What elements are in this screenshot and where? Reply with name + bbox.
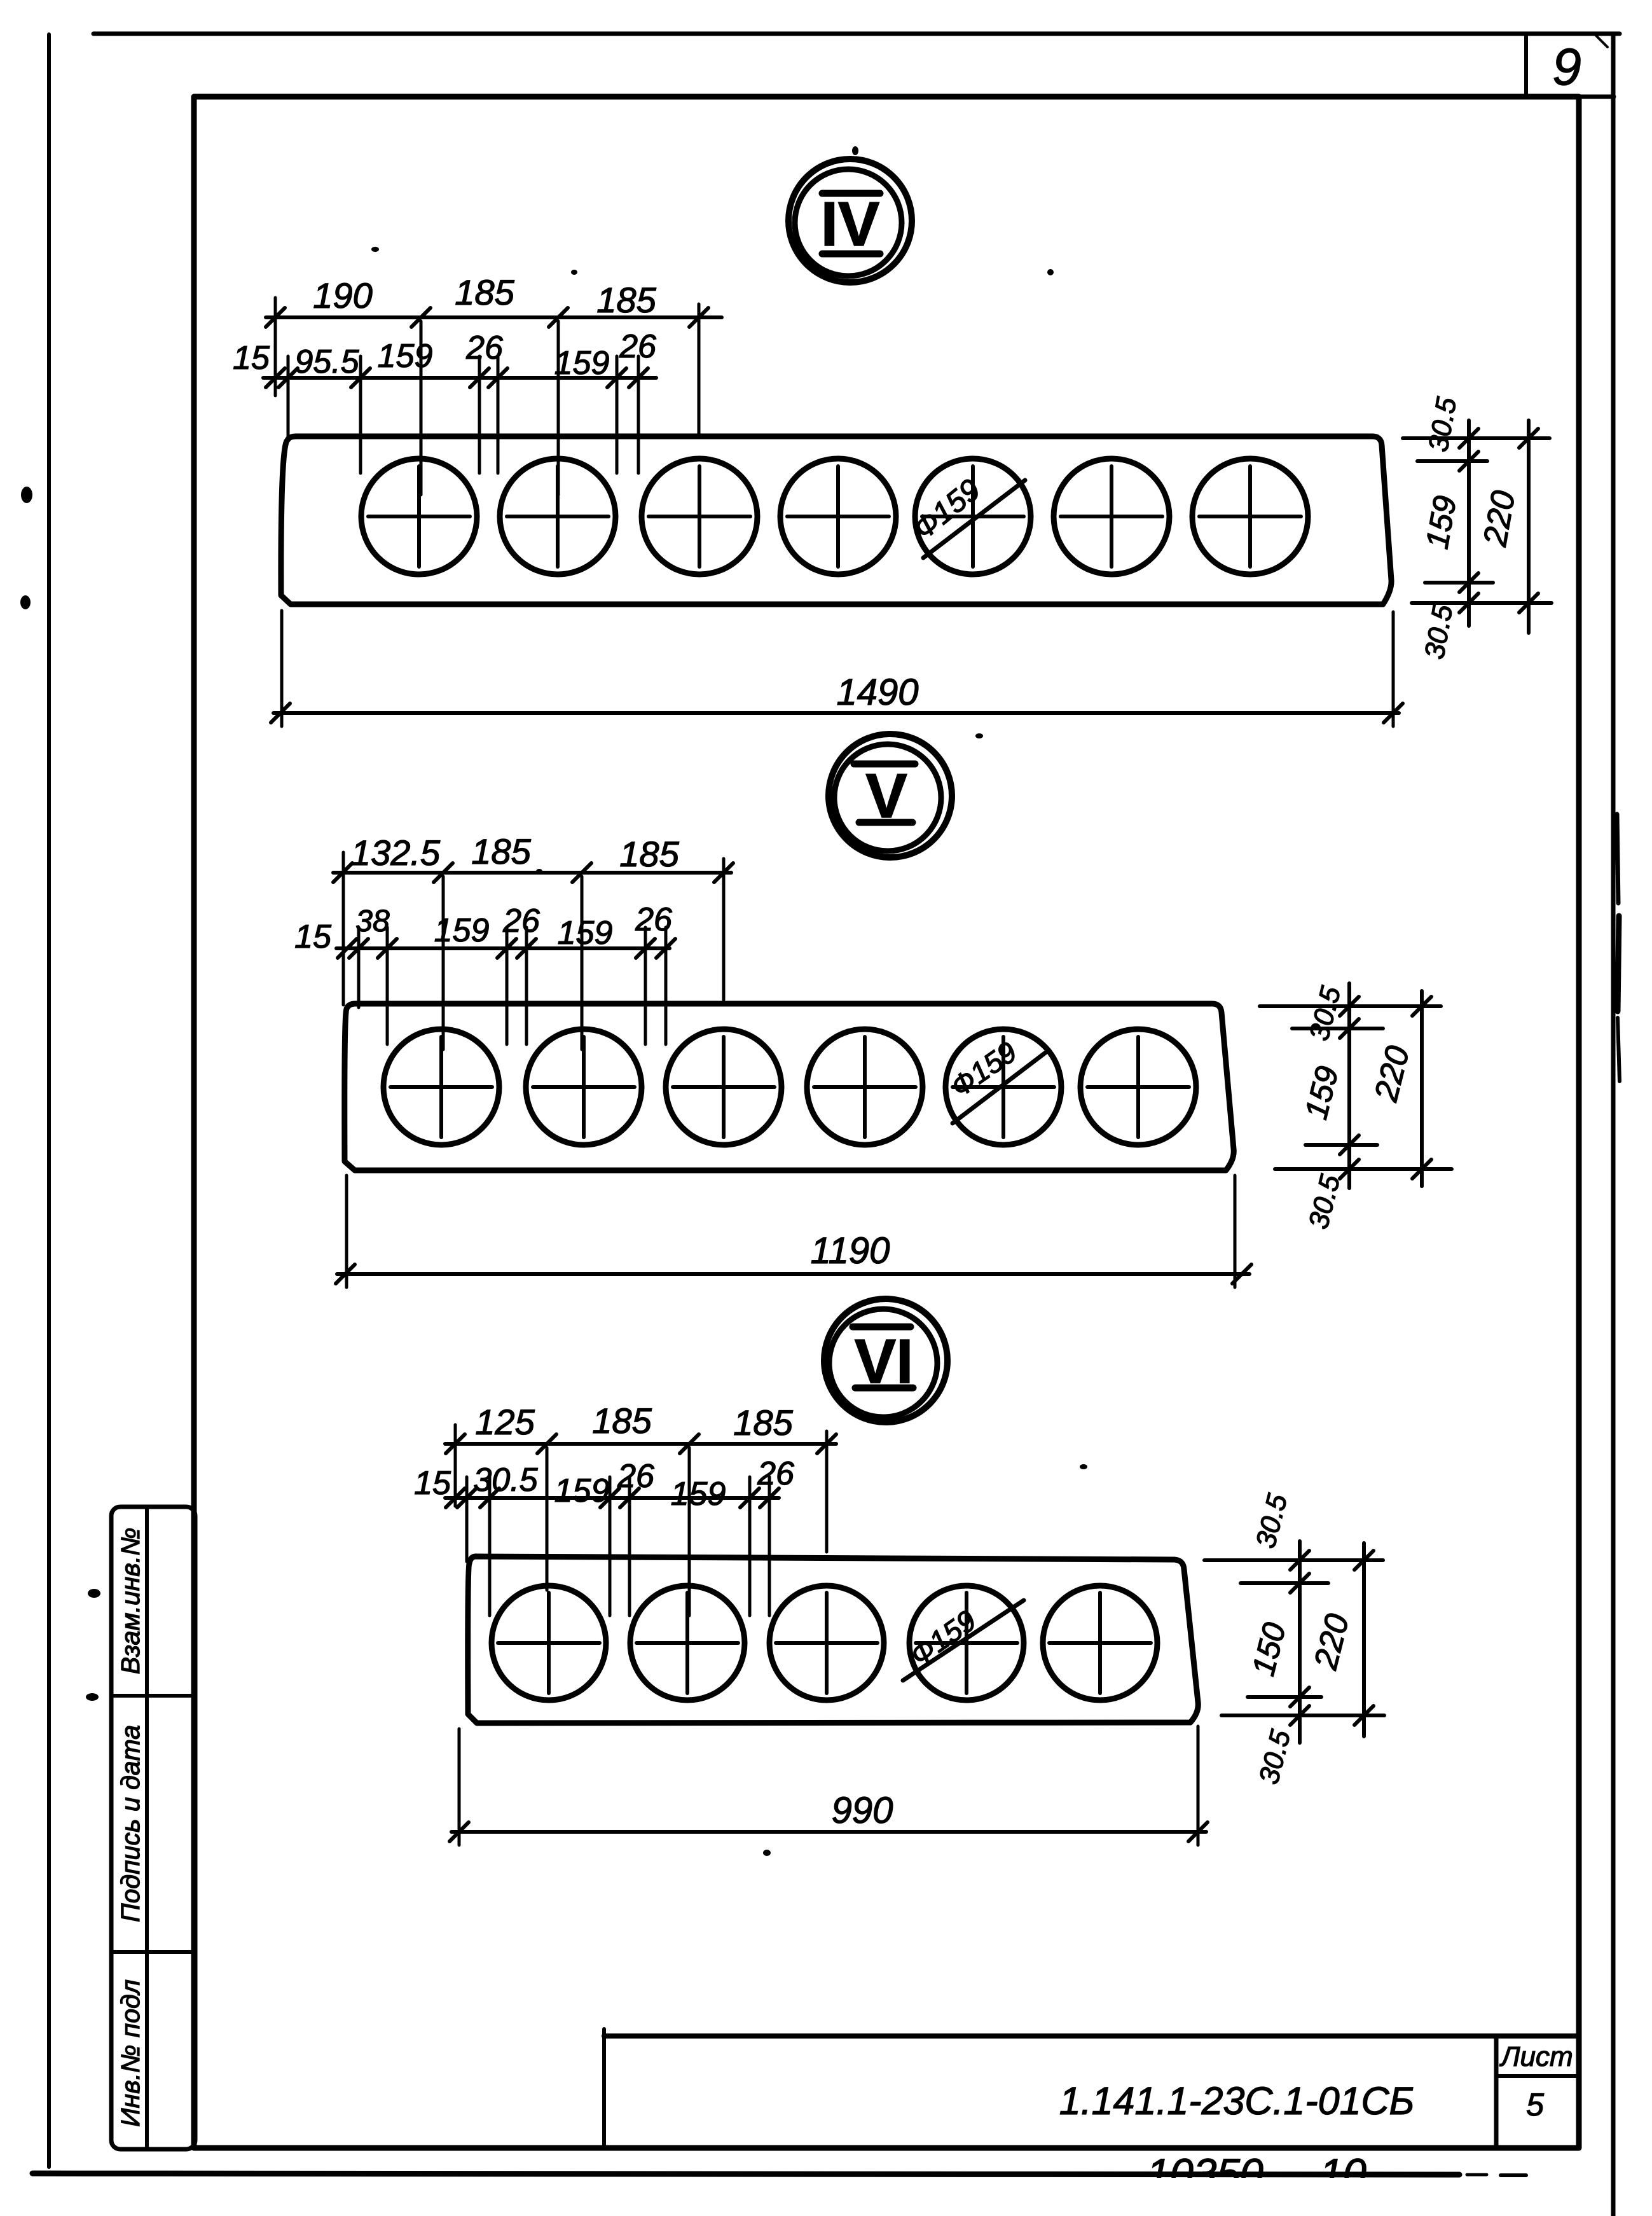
diameter leader line IV [923, 480, 1025, 558]
ticks dim IV top row [266, 308, 708, 327]
svg-text:185: 185 [596, 280, 656, 320]
speck VI area [1080, 1464, 1087, 1469]
speck bottom area [763, 1850, 771, 1856]
dot above section IV label [852, 146, 858, 155]
hole V-3 [666, 1029, 781, 1145]
sheet number box divider vertical [1524, 36, 1528, 97]
hole VI-3 [769, 1586, 884, 1700]
mask under page bottom [1075, 2178, 1507, 2216]
ticks dim 990 [450, 1822, 1208, 1841]
svg-text:26: 26 [757, 1455, 794, 1492]
hole VI-1 cross [498, 1593, 600, 1693]
svg-text:5: 5 [1526, 2087, 1544, 2123]
smudge right margin [1617, 814, 1620, 1081]
right chain VI dim line 220 [1362, 1543, 1366, 1736]
svg-text:30.5: 30.5 [473, 1462, 538, 1499]
ticks dim V top row [333, 863, 733, 882]
svg-text:9: 9 [1552, 38, 1581, 96]
hole IV-5 [915, 459, 1031, 574]
dim line IV 1490 [273, 711, 1399, 715]
right chain VI lower tick line [1248, 1695, 1321, 1699]
hole IV-7 [1192, 459, 1308, 574]
dim line IV 190-185-185 [266, 315, 722, 319]
page edge line top [93, 32, 1620, 36]
right chain V lower tick line [1305, 1143, 1377, 1147]
hole V-4 cross [814, 1037, 916, 1137]
ticks dim IV second row [266, 368, 648, 387]
svg-text:159: 159 [554, 345, 610, 382]
svg-text:159: 159 [554, 1472, 610, 1509]
hole IV-1 cross [368, 466, 470, 567]
hole VI-3 cross [776, 1593, 878, 1693]
right chain IV dim line 220 [1527, 420, 1531, 633]
dim line V 1190 [337, 1272, 1249, 1276]
svg-text:185: 185 [471, 831, 531, 871]
right chain IV lower tick line [1425, 581, 1493, 585]
svg-text:38: 38 [355, 904, 390, 938]
svg-text:Лист: Лист [1499, 2041, 1573, 2072]
section V label circle inner [834, 744, 941, 851]
hole IV-2 [500, 459, 616, 574]
hole V-1 [383, 1029, 499, 1145]
hole VI-4 [909, 1586, 1024, 1700]
svg-text:159: 159 [671, 1476, 726, 1513]
right chain V dim line 220 [1420, 991, 1424, 1186]
page edge bottom dash [1467, 2173, 1487, 2177]
svg-text:Взам.инв.№: Взам.инв.№ [116, 1528, 145, 1675]
svg-text:1490: 1490 [836, 672, 918, 713]
hole IV-4 [780, 459, 896, 574]
slab VI outline [468, 1556, 1199, 1723]
extension lines IV top row [275, 298, 699, 495]
hole VI-2 cross [637, 1593, 738, 1693]
section VI label underline [855, 1385, 913, 1392]
extension lines 990 [459, 1726, 1198, 1845]
dim line VI 15-30.5-159-26 [445, 1496, 779, 1500]
extension lines VI top row [455, 1425, 827, 1616]
extension lines V top row [343, 852, 724, 1049]
dim line V 132.5-185-185 [333, 871, 731, 875]
hole V-5 [946, 1029, 1061, 1145]
svg-text:1.141.1-23С.1-01СБ: 1.141.1-23С.1-01СБ [1059, 2079, 1415, 2123]
svg-text:26: 26 [635, 901, 672, 938]
speck top area 3 [1047, 269, 1054, 275]
hole IV-6 [1054, 459, 1169, 574]
attribute table outline [111, 1507, 195, 2149]
dim line VI 990 [451, 1830, 1206, 1834]
right chain IV bottom extension [1412, 601, 1552, 605]
section VI label circle inner [829, 1309, 937, 1417]
speck top area 2 [571, 270, 577, 275]
speck top area 1 [371, 247, 379, 252]
svg-text:1190: 1190 [811, 1230, 890, 1271]
hole IV-3 [642, 459, 757, 574]
section IV label underline [822, 251, 880, 258]
hole IV-1 [361, 459, 477, 574]
svg-text:Инв.№ подл: Инв.№ подл [116, 1979, 145, 2127]
ticks dim 1190 [336, 1264, 1251, 1284]
hole V-6 cross [1087, 1037, 1189, 1137]
svg-text:26: 26 [465, 329, 503, 366]
speck mid area 1 [975, 733, 983, 738]
right chain IV dim line 159 [1467, 420, 1471, 626]
page edge bottom dash 2 [1501, 2173, 1526, 2177]
page edge line left [47, 34, 51, 2167]
svg-text:15: 15 [294, 918, 332, 955]
hole V-6 [1080, 1029, 1196, 1145]
section V label overline [854, 761, 915, 768]
title block top line [604, 2033, 1579, 2039]
hole IV-5 cross [922, 466, 1024, 567]
ticks dim VI second row [446, 1488, 779, 1507]
svg-text:159: 159 [434, 912, 490, 949]
slab IV outline [281, 436, 1391, 604]
right chain IV top extension [1403, 436, 1550, 440]
extension lines IV second row [288, 356, 638, 473]
extension lines 1490 [282, 611, 1393, 726]
corner slash in sheet box [1593, 33, 1607, 47]
section IV label overline [822, 190, 880, 197]
svg-text:159: 159 [558, 915, 613, 952]
ticks dim V second row [338, 939, 675, 958]
svg-text:26: 26 [617, 1458, 654, 1495]
hole IV-7 cross [1199, 466, 1301, 567]
sheet number box divider bottom [1526, 95, 1614, 99]
speck left margin 1 [21, 487, 32, 503]
ticks right chain V [1340, 997, 1431, 1179]
ticks right chain IV [1459, 429, 1538, 613]
right chain VI dim line 150 [1298, 1541, 1302, 1743]
speck near attr table 2 [86, 1693, 99, 1701]
hole V-1 cross [390, 1037, 492, 1137]
right chain VI top extension [1204, 1558, 1383, 1562]
hole IV-3 cross [649, 466, 750, 567]
svg-text:159: 159 [378, 338, 433, 375]
hole V-2 cross [533, 1037, 635, 1137]
svg-text:132.5: 132.5 [351, 833, 441, 873]
right chain VI upper tick line [1241, 1581, 1328, 1585]
hole V-5 cross [953, 1037, 1054, 1137]
svg-text:15: 15 [233, 340, 270, 377]
right chain V top extension [1260, 1004, 1441, 1008]
svg-text:990: 990 [832, 1790, 893, 1831]
speck left margin 2 [20, 595, 31, 609]
svg-text:IV: IV [821, 189, 880, 259]
section IV label circle inner [795, 169, 902, 276]
attribute table row divider 1 [111, 1694, 195, 1698]
right chain V upper tick line [1292, 1027, 1383, 1030]
hole IV-2 cross [507, 466, 609, 567]
hole IV-4 cross [787, 466, 889, 567]
svg-text:190: 190 [313, 275, 372, 315]
section IV label circle outer [788, 159, 912, 282]
extension lines VI second row [467, 1477, 769, 1616]
section VI label circle outer [824, 1299, 947, 1422]
section VI label overline [853, 1324, 911, 1331]
svg-text:185: 185 [619, 834, 679, 874]
drawing frame [194, 97, 1579, 2148]
hole V-4 [807, 1029, 923, 1145]
title block list-box divider vertical [1494, 2036, 1499, 2148]
diameter leader line VI [903, 1600, 1024, 1680]
svg-text:95.5: 95.5 [294, 343, 359, 380]
svg-text:26: 26 [619, 328, 656, 365]
right chain V bottom extension [1275, 1167, 1452, 1171]
svg-text:185: 185 [455, 272, 514, 312]
section V label circle outer [829, 734, 952, 857]
section V label underline [859, 819, 912, 826]
dim line V 15-38-159-26 [336, 946, 670, 950]
hole VI-4 cross [916, 1593, 1017, 1693]
extension lines 1190 [347, 1175, 1235, 1287]
diameter leader line V [953, 1051, 1048, 1123]
slab V outline [345, 1004, 1234, 1170]
hole IV-6 cross [1061, 466, 1162, 567]
right chain V dim line 159 [1347, 983, 1351, 1188]
ticks right chain VI [1290, 1551, 1373, 1725]
hole VI-5 cross [1049, 1593, 1151, 1693]
title block list-box divider horizontal [1496, 2074, 1579, 2078]
ticks dim VI top row [446, 1434, 836, 1453]
hole VI-2 [630, 1586, 745, 1700]
speck mid area 2 [536, 869, 542, 874]
extension lines V second row [359, 927, 666, 1044]
svg-text:185: 185 [592, 1401, 652, 1441]
right chain VI bottom extension [1222, 1714, 1384, 1717]
svg-text:15: 15 [414, 1465, 451, 1502]
svg-text:26: 26 [502, 903, 540, 939]
right chain IV upper tick line [1417, 459, 1487, 463]
hole V-2 [526, 1029, 642, 1145]
page edge line bottom [32, 2173, 1459, 2175]
dim line VI 125-185-185 [445, 1442, 836, 1446]
ticks dim 1490 [271, 703, 1403, 723]
hole VI-5 [1043, 1586, 1157, 1700]
page edge line right [1611, 35, 1616, 2216]
hole V-3 cross [673, 1037, 774, 1137]
attribute table column divider [145, 1507, 149, 2149]
attribute table row divider 2 [111, 1950, 195, 1954]
svg-text:125: 125 [475, 1402, 535, 1442]
svg-text:Подпись и дата: Подпись и дата [116, 1725, 145, 1922]
hole VI-1 [492, 1586, 606, 1700]
dim line IV 15-95.5-159-26 [263, 376, 656, 380]
title block left edge [602, 2029, 606, 2148]
speck near attr table 1 [88, 1589, 100, 1598]
svg-text:185: 185 [733, 1402, 793, 1443]
